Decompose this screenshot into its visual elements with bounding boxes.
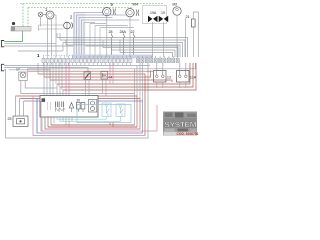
motor M8 xyxy=(173,7,181,15)
pressure switch 17 xyxy=(19,72,27,81)
relay 13 wires up xyxy=(157,63,186,71)
box bottom comb drops xyxy=(42,117,72,131)
wire red y87 xyxy=(60,63,193,87)
distribution wire band L3 xyxy=(63,43,183,58)
bundle wire d xyxy=(82,20,140,57)
faint box top right xyxy=(143,6,167,24)
box winding waves xyxy=(55,109,65,111)
short verticals feeding band xyxy=(57,33,120,53)
svg-text:22: 22 xyxy=(131,30,135,34)
bundle wire c xyxy=(79,18,113,57)
pump P1 small impeller xyxy=(38,12,43,17)
wire y93.5 xyxy=(21,94,135,126)
svg-text:44: 44 xyxy=(109,76,113,80)
right edge wire xyxy=(193,12,198,57)
wire y98.5 xyxy=(20,99,141,130)
distribution wire band L2 xyxy=(60,40,185,57)
svg-text:25: 25 xyxy=(8,117,12,121)
switch 28A xyxy=(124,34,126,58)
distribution wire band L1 xyxy=(57,38,188,58)
distribution wire band L5 xyxy=(103,48,178,58)
wire 6d to box xyxy=(9,70,50,96)
wire red y80 xyxy=(50,80,172,82)
connector 6 xyxy=(1,64,4,71)
verticals strip to box xyxy=(44,63,63,96)
bottom loop blue xyxy=(36,99,38,134)
component 18 small box xyxy=(84,72,91,80)
strip numbers fuzz xyxy=(43,55,74,57)
vertical red mid pair down xyxy=(110,123,113,128)
wire 21 drop xyxy=(185,19,187,57)
svg-text:M4: M4 xyxy=(133,2,139,7)
svg-text:13: 13 xyxy=(167,76,171,80)
box triangle pin xyxy=(71,108,73,112)
vertical pink right pair xyxy=(110,63,113,84)
green dashed enclosure vertical 1 xyxy=(22,4,24,27)
cyan wires xyxy=(57,117,120,122)
wires from 17 down xyxy=(21,81,57,94)
svg-text:21: 21 xyxy=(186,15,190,19)
box rect pair xyxy=(76,103,85,113)
motor M9 xyxy=(103,8,116,16)
teal component S2 xyxy=(116,104,125,117)
bottom loop red to logo xyxy=(41,101,157,131)
wire red y71 xyxy=(28,70,154,72)
box triangle symbol xyxy=(69,103,73,109)
bottom loop pink outer xyxy=(33,96,145,136)
distribution wire band L4 xyxy=(66,45,180,57)
teal component S1 xyxy=(102,103,111,117)
vertical drop resistor xyxy=(192,27,194,57)
distribution wire band L7 xyxy=(120,53,173,58)
wire red y74 xyxy=(38,74,145,136)
misc top links xyxy=(90,24,134,28)
vertical drop fan2 xyxy=(66,29,68,57)
box winding group 1 xyxy=(56,102,60,108)
bottom loop red 2 xyxy=(48,126,137,128)
wire 6c / big left loop xyxy=(4,63,148,138)
svg-text:COD. 3206751: COD. 3206751 xyxy=(177,132,199,136)
wire y101 xyxy=(24,99,143,134)
verticals comp44 down xyxy=(103,79,107,96)
svg-text:SYSTEM: SYSTEM xyxy=(164,122,197,129)
terminal block X0 (hatched) xyxy=(11,27,31,32)
wire y96 xyxy=(16,96,138,127)
wire 6b xyxy=(4,68,88,73)
bundle wire b xyxy=(77,15,126,57)
vertical drop motor9 xyxy=(106,16,108,57)
wire pump to motor xyxy=(43,14,46,16)
wire y68.5 xyxy=(28,63,196,69)
motor M1 xyxy=(46,11,54,19)
misc drops xyxy=(90,24,100,58)
svg-text:S: S xyxy=(107,113,109,117)
wire red y77 xyxy=(44,71,151,78)
resistor R xyxy=(192,19,196,27)
green dashed enclosure top line 1 xyxy=(20,3,164,5)
switch 22 xyxy=(134,34,136,58)
connector 4 xyxy=(1,41,4,47)
vertical drop pump xyxy=(54,15,56,57)
verticals comp18 to box xyxy=(86,80,90,96)
green dashed enclosure top line 2 xyxy=(28,7,133,9)
box winding pins xyxy=(56,107,64,112)
svg-text:28: 28 xyxy=(109,30,113,34)
teal pcb box xyxy=(77,105,131,123)
relay 13 wires down xyxy=(157,82,186,88)
gas valve 25 xyxy=(13,116,28,127)
pump drops xyxy=(41,17,52,56)
wire red y84 xyxy=(57,63,190,84)
svg-text:19: 19 xyxy=(161,11,165,15)
vertical drop motor4 xyxy=(129,17,131,57)
earth symbol near terminal block xyxy=(12,22,15,25)
box inner connector dark xyxy=(42,98,46,102)
lavender band behind strip xyxy=(72,55,153,59)
svg-text:M2: M2 xyxy=(173,3,178,7)
svg-text:28A: 28A xyxy=(120,30,127,34)
bottom control box xyxy=(40,96,98,118)
relay 13A xyxy=(177,71,190,83)
box gap pins xyxy=(48,102,51,110)
bundle wire e xyxy=(84,23,95,57)
box winding group 2 xyxy=(62,102,64,108)
green dashed enclosure vertical 2 xyxy=(27,8,29,27)
switch 28 xyxy=(112,34,114,58)
svg-text:20: 20 xyxy=(77,99,81,103)
motor M4 xyxy=(126,9,139,17)
wire red y90 xyxy=(63,63,196,90)
vertical drop 19 xyxy=(162,22,164,57)
wire connector 4 low xyxy=(4,46,178,57)
wire 6a long xyxy=(4,65,150,67)
fan 19A bowtie xyxy=(148,16,158,22)
fan 2 body xyxy=(64,22,75,29)
vertical drop M8 xyxy=(176,15,178,57)
logo box SYSTEM xyxy=(163,112,197,136)
wire left stub xyxy=(18,50,63,52)
wires 25 up xyxy=(16,96,24,116)
component 44 box xyxy=(101,72,108,80)
bundle wire a xyxy=(74,13,103,57)
svg-text:19A: 19A xyxy=(150,11,157,15)
grey cable bundle vertical xyxy=(73,13,86,56)
loop vertical extensions xyxy=(135,63,143,101)
fan 19 bowtie xyxy=(159,16,169,22)
terminal strip X1 xyxy=(42,56,132,65)
bottom loop red inner xyxy=(51,124,135,126)
distribution wire band L6 xyxy=(112,50,176,57)
bottom loop pink 3 xyxy=(45,128,140,130)
svg-text:S: S xyxy=(121,113,123,117)
box motor circles stacked xyxy=(88,100,97,113)
wire connector 4 mid xyxy=(4,43,56,45)
terminal strip X2 right xyxy=(137,56,180,63)
wire fan2 left xyxy=(39,25,64,31)
vertical drop 19A xyxy=(152,22,154,57)
relay 13 xyxy=(154,71,167,83)
wire green from connector 4 xyxy=(4,31,22,42)
svg-text:17: 17 xyxy=(16,68,20,72)
pink verticals to box xyxy=(66,63,69,96)
feeder verticals below strip xyxy=(28,63,51,80)
